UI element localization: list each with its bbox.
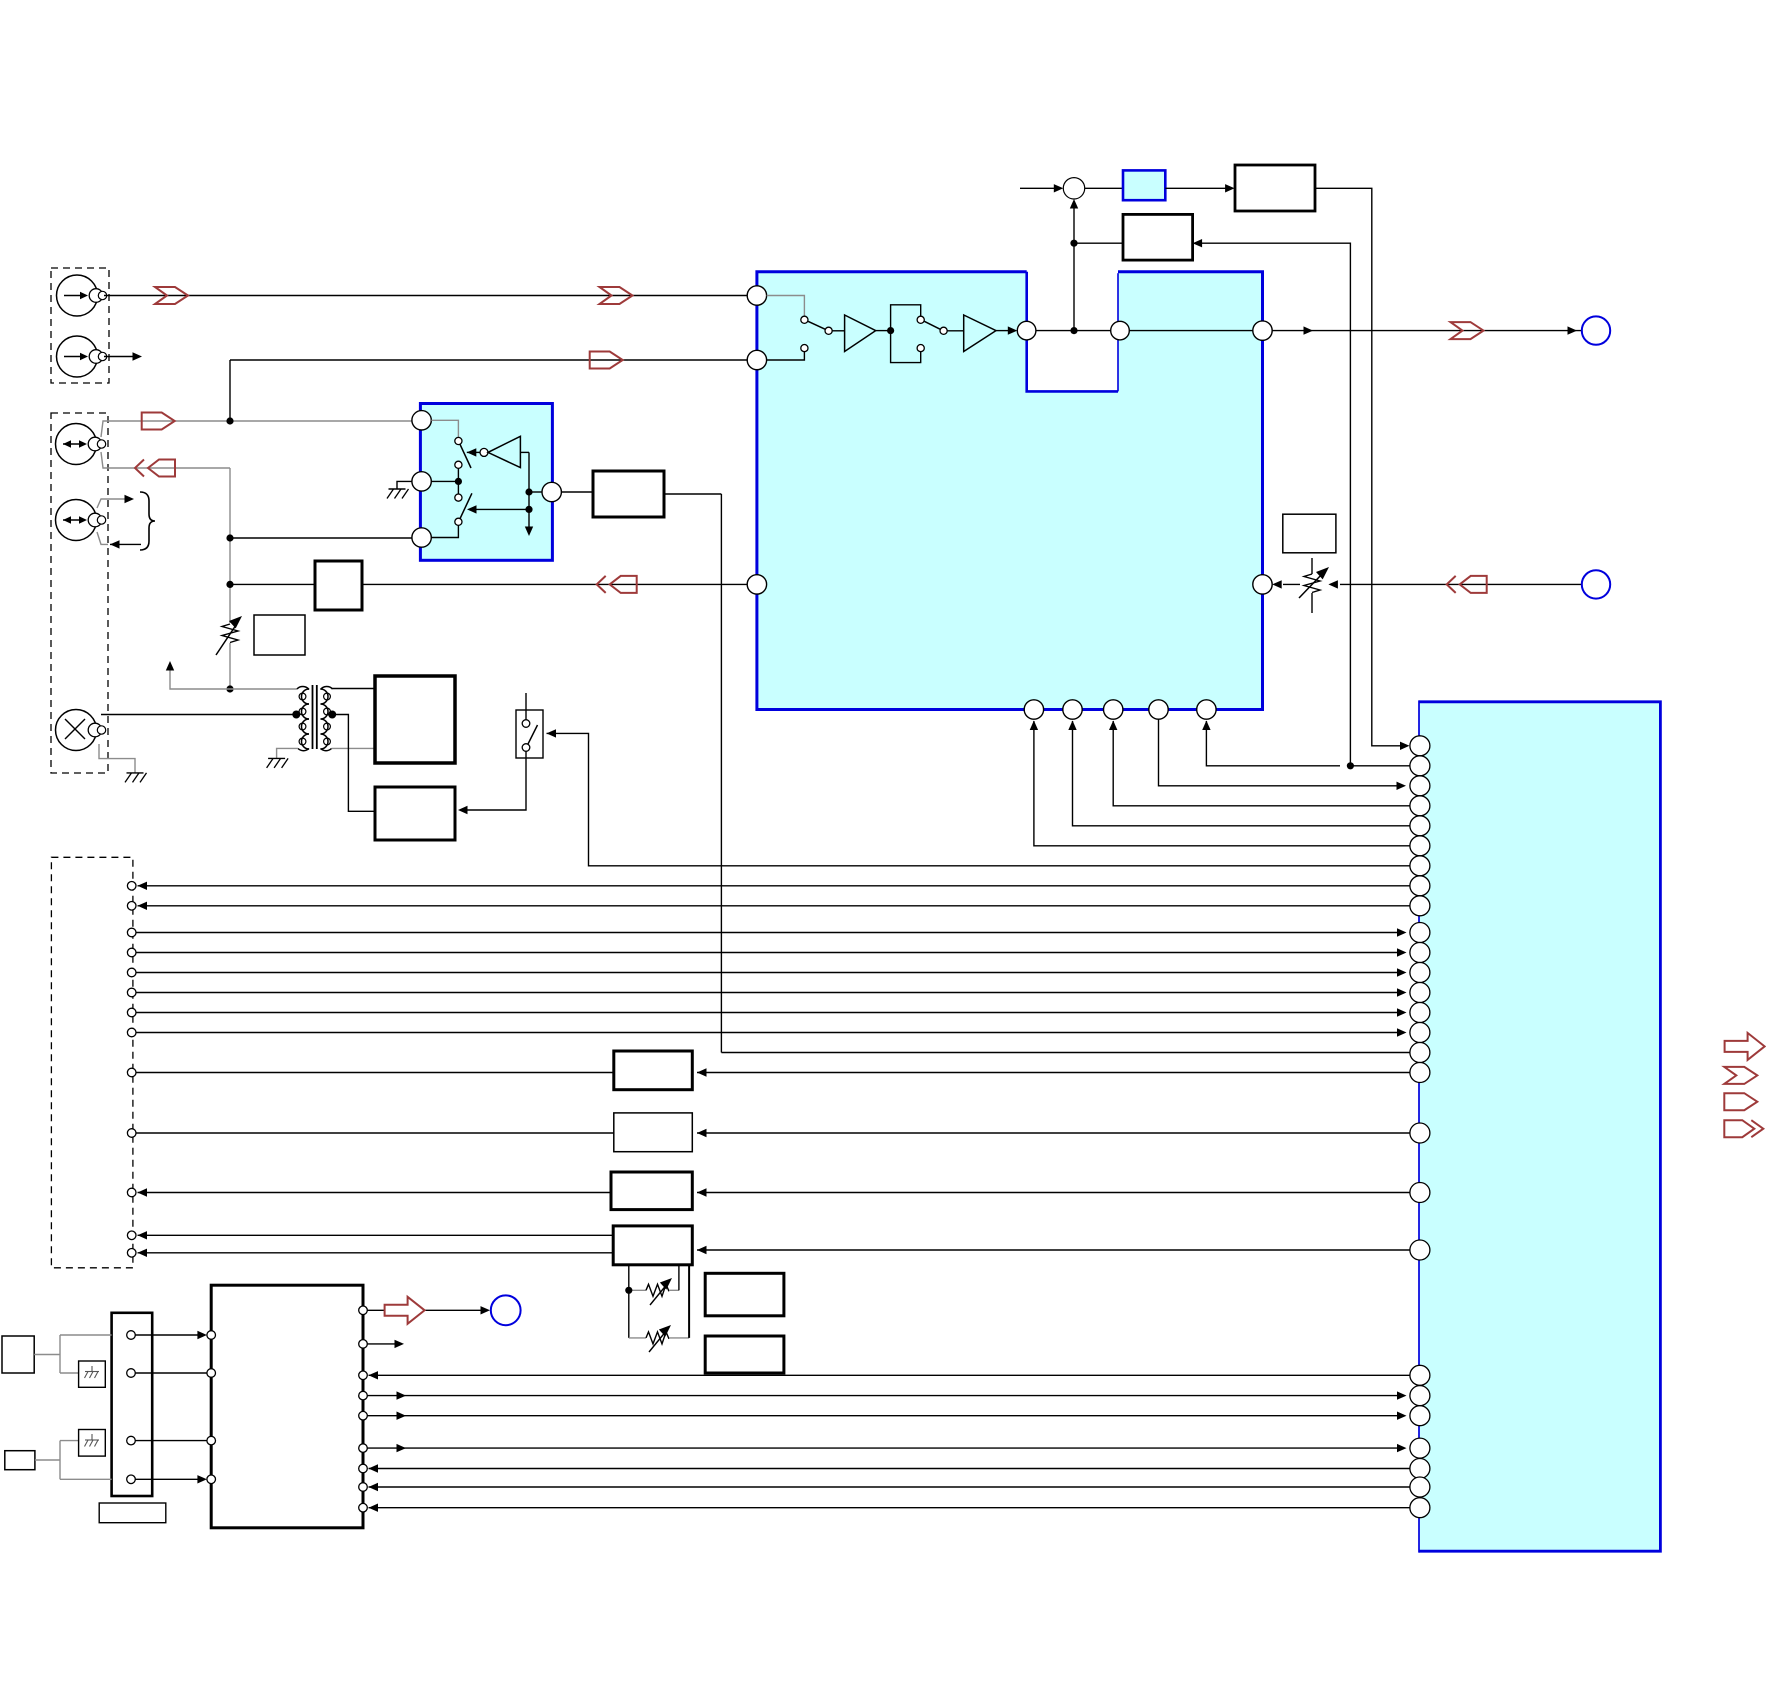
ground box 2 <box>79 1430 106 1457</box>
U2 pin 20 <box>1410 1240 1430 1260</box>
box E <box>705 1273 784 1316</box>
CN3 terminal 9 <box>127 1068 136 1077</box>
junction MAIN/feedback <box>1070 327 1077 334</box>
U2 pin 24 <box>1410 1438 1430 1458</box>
wire J3 bottom / vertical grey bus x=230 <box>101 452 230 689</box>
U2 pin 14 <box>1410 1003 1430 1023</box>
filter box FB1 (cyan) <box>1085 170 1166 200</box>
wire U3 to U2 pin23 (bus3) <box>367 1412 1406 1420</box>
wire SW1 to box L <box>458 751 526 814</box>
signal arrow (chevron) on LINE-OUT <box>1451 322 1484 339</box>
CN3 terminal 7 <box>127 1008 136 1017</box>
U1 switch S2 <box>917 316 947 352</box>
U3 right pin 4 <box>359 1391 368 1400</box>
U3 right pin 1 <box>359 1306 368 1315</box>
U1 buffer A1 <box>832 315 876 352</box>
box R2 (next to VR1) <box>254 615 305 655</box>
CN3 terminal 4 <box>127 948 136 957</box>
wire U3 to headphone node + red block arrow <box>367 1306 490 1314</box>
U1 wire A2 to notch node <box>996 326 1017 334</box>
U1 bottom pin 2 <box>1063 700 1082 719</box>
CN3 terminal 3 <box>127 928 136 937</box>
junction T1 primary tap <box>292 711 300 719</box>
U2 pin 17 <box>1410 1063 1430 1083</box>
U2 pin 15 <box>1410 1023 1430 1043</box>
U2 pin 11 <box>1410 943 1430 963</box>
signal arrow (pentagon) on REC-A <box>142 413 175 430</box>
connector group CN1 (dashed enclosure) <box>51 268 109 383</box>
CN3 terminal 1 <box>127 882 136 891</box>
U2 pin 5 <box>1410 816 1430 836</box>
wire T1 tap to box L <box>332 715 375 812</box>
IC SW-B (input selector, cyan) <box>420 404 552 561</box>
U2 pin 12 <box>1410 963 1430 983</box>
CN3 terminal 11 <box>127 1188 136 1197</box>
wire J5 to transformer primary tap <box>101 714 294 716</box>
wire box D to terminal 12 <box>138 1231 614 1239</box>
wire grey bus to transformer primary top <box>230 688 297 690</box>
wire box C to terminal 11 <box>138 1188 612 1196</box>
IC U2 (system control, cyan) <box>1419 700 1660 1552</box>
signal arrow (dbl-chevron left) on LINE-IN <box>1447 576 1487 593</box>
power block L <box>375 787 455 840</box>
wire U1 bot5 to U2 pin2 <box>1202 721 1410 766</box>
wire corner to U1 pin B (net REC-B) <box>230 360 747 421</box>
variable resistor VR4 under box D <box>629 1265 689 1352</box>
U1 internal wire pinB to switch S1 <box>767 352 805 360</box>
CN3 terminal 10 <box>127 1129 136 1138</box>
summing node S <box>1063 178 1084 199</box>
U1 pin C (left, MON) <box>747 575 766 594</box>
connector J5 (power) <box>56 710 106 751</box>
U2 pin 3 <box>1410 776 1430 796</box>
junction x230/y689 <box>226 685 233 692</box>
wire U2 pin8 to terminal 1 <box>138 882 1410 890</box>
wire U3 to U2 pin24 (bus4) <box>367 1444 1406 1452</box>
branch with up arrow <box>166 661 230 689</box>
junction x230/y584 <box>226 581 233 588</box>
signal arrow (block) on phones line <box>385 1297 425 1324</box>
wire input jack to attenuator (net LINE-IN) <box>1328 580 1581 588</box>
U3 right pin 7 <box>359 1464 368 1473</box>
input node (blue) <box>1582 570 1610 598</box>
U1 notch node right <box>1111 321 1130 340</box>
wire T1 primary bottom to chassis ground <box>277 748 298 758</box>
U1 bottom pin 4 <box>1149 700 1168 719</box>
stub arrow from J2 <box>104 352 142 360</box>
wire CN4-1 to U3 <box>135 1331 207 1339</box>
variable resistor VR1 on grey bus <box>216 612 245 655</box>
transformer T1 primary winding <box>297 687 309 751</box>
wire tap to box FB3 <box>1074 242 1123 244</box>
U2 pin 1 <box>1410 736 1430 756</box>
U2 pin 23 <box>1410 1406 1430 1426</box>
wire J1 to U1 pin A (net PB-L) <box>104 295 747 297</box>
connector J4 (bidirectional) <box>56 500 106 541</box>
CN3 terminal 6 <box>127 988 136 997</box>
wire terminal 7 to U2 pin 14 <box>136 1008 1407 1016</box>
SW-B switch S4 <box>455 493 472 525</box>
wire summing node to MAIN junction <box>1070 199 1078 331</box>
signal arrow (chevron) on PB-L near J1 <box>155 287 188 304</box>
output node (blue) <box>1582 316 1610 344</box>
SW-B junction to C4 <box>525 488 542 495</box>
U1 internal wire pinA to switch S1 <box>767 296 805 317</box>
SW-B switch S3 <box>455 437 471 468</box>
wire junction to SW-block pin C3 <box>230 537 412 539</box>
SW-B wire A3 to output <box>520 452 533 536</box>
U1 bottom pin 5 <box>1197 700 1216 719</box>
resistor box R1 <box>315 561 362 610</box>
box FB3 <box>1123 214 1193 260</box>
switch SW1 (power) <box>516 693 543 758</box>
signal arrow (dbl-chevron left) on MON <box>597 576 637 593</box>
SW-B pin C1 <box>412 411 431 430</box>
wire U3 to U2 pin22 (bus2) <box>367 1391 1406 1399</box>
U3 right pin 3 <box>359 1371 368 1380</box>
chassis ground (below J5) <box>125 773 147 783</box>
wire junction through R-box to U1 pin C (net MON) <box>230 583 747 585</box>
connector J2 <box>57 336 107 377</box>
U1 pin E (right, IN) <box>1253 575 1272 594</box>
attenuator VR2 <box>1299 558 1332 613</box>
chassis ground (T1) <box>267 758 289 768</box>
signal arrow (chevron) on PB-L mid <box>600 287 633 304</box>
wire U2 pin18 to box B <box>697 1129 1410 1137</box>
wire SW1 control from U2 pin7 <box>547 729 1410 866</box>
wire SW-B C4 to output box <box>561 491 593 493</box>
U1 buffer A2 <box>947 315 996 352</box>
U3 left pin 2 <box>207 1369 216 1378</box>
variable resistor VR3 under box D <box>629 1265 679 1305</box>
CN4 contact 2 <box>127 1369 136 1378</box>
U1 switch S1 <box>801 316 832 352</box>
U2 pin 27 <box>1410 1498 1430 1518</box>
U3 left pin 3 <box>207 1436 216 1445</box>
wire U1 bot4 to U2 pin3 <box>1159 719 1407 790</box>
U2 pin 8 <box>1410 876 1430 896</box>
wire box G to CN4/groundbox1 <box>34 1335 111 1373</box>
SW-B pin C2 <box>412 472 431 491</box>
wire CN4-3 to U3 <box>135 1440 207 1442</box>
wire terminal 6 to U2 pin 13 <box>136 988 1407 996</box>
wire FB1 to box FB2 <box>1165 184 1234 192</box>
U3 right pin 8 <box>359 1483 368 1492</box>
U2 pin 26 <box>1410 1477 1430 1497</box>
CN3 terminal 5 <box>127 968 136 977</box>
output box of SW-B <box>593 471 664 517</box>
SW-B wire C2 junction <box>431 468 462 494</box>
IC U3 (bottom-left block) <box>211 1285 363 1528</box>
U3 left pin 4 <box>207 1475 216 1484</box>
U1 splitter to switch S2 <box>891 305 921 363</box>
wire notch to U1 right pin <box>1129 330 1253 332</box>
brace note at J4 <box>97 492 155 550</box>
box B <box>614 1113 693 1152</box>
box I (under CN4) <box>99 1503 166 1523</box>
U2 pin 4 <box>1410 796 1430 816</box>
sensor box G <box>2 1336 34 1373</box>
SW-B pin C4 (output) <box>542 482 561 501</box>
U1 pin A (left, PB) <box>747 286 766 305</box>
wire terminal 10 to box B <box>136 1132 614 1134</box>
IC U1 (record/playback selector, cyan) <box>757 272 1263 710</box>
terminal strip CN3 (dashed enclosure) <box>51 857 132 1268</box>
connector J3 (bidirectional) <box>56 424 106 465</box>
wire U2 pin9 to terminal 2 <box>138 902 1410 910</box>
junction T1 secondary tap <box>328 711 336 719</box>
wire attenuator to U1 IN <box>1272 580 1300 588</box>
U2 pin 7 <box>1410 856 1430 876</box>
U2 pin 9 <box>1410 896 1430 916</box>
CN3 terminal 13 <box>127 1249 136 1258</box>
U3 right pin 9 <box>359 1503 368 1512</box>
ground box 1 <box>79 1361 106 1387</box>
signal arrow (dbl-chevron left) near J3 <box>135 460 175 477</box>
U3 stub output arrow <box>367 1340 404 1348</box>
U3 right pin 5 <box>359 1411 368 1420</box>
legend arrow (block) <box>1725 1033 1765 1060</box>
U2 pin 10 <box>1410 923 1430 943</box>
wire box D to terminal 13 <box>138 1249 614 1257</box>
U3 left pin 1 <box>207 1331 216 1340</box>
U1 pin D (right, OUT) <box>1253 321 1272 340</box>
U2 pin 22 <box>1410 1386 1430 1406</box>
wire terminal 4 to U2 pin 11 <box>136 948 1407 956</box>
wire U2 pin26 to U3 (bus6) <box>369 1483 1410 1491</box>
SW-B pin C3 <box>412 528 431 547</box>
phones node (blue) <box>491 1295 521 1325</box>
U2 pin 21 <box>1410 1365 1430 1385</box>
power block K <box>375 676 455 763</box>
wire box H to groundbox2/CN4 <box>35 1441 112 1480</box>
U1 pin B (left, REC) <box>747 350 766 369</box>
wire U2 pin20 to box D <box>697 1246 1410 1254</box>
connector J1 <box>57 275 107 316</box>
wire U2 pin17 to box A <box>697 1068 1410 1076</box>
U2 pin 6 <box>1410 836 1430 856</box>
U1 notch node left <box>1017 321 1036 340</box>
wire J3 top to SW-block input (net REC-A) <box>101 421 412 437</box>
wire J5 to chassis ground <box>99 744 135 773</box>
connector group CN2 (dashed enclosure) <box>51 413 108 773</box>
box N (by attenuator) <box>1283 514 1336 553</box>
SW-B inverter A3 <box>467 436 521 467</box>
wire U1 bot1 to U2 pin6 <box>1030 721 1410 846</box>
connector strip CN4 <box>112 1313 153 1496</box>
sensor box H <box>5 1451 35 1470</box>
U2 pin 2 <box>1410 756 1430 776</box>
CN3 terminal 8 <box>127 1028 136 1037</box>
U2 pin 25 <box>1410 1459 1430 1479</box>
CN4 contact 4 <box>127 1475 136 1484</box>
CN4 contact 3 <box>127 1436 136 1445</box>
transformer T1 core <box>313 685 317 749</box>
wire CN4-2 to U3 <box>135 1372 207 1374</box>
signal arrow (pentagon) on REC-B mid <box>590 352 623 369</box>
transformer T1 secondary winding <box>321 687 333 751</box>
U2 pin 13 <box>1410 983 1430 1003</box>
wire terminal 9 to box A <box>136 1072 614 1074</box>
U1 junction after A1 <box>876 327 895 334</box>
SW-B wire C3 to S4 <box>431 525 458 537</box>
wire FB3 input from right bus (down to U2 pin2) <box>1193 239 1351 766</box>
legend arrow (chevron) <box>1724 1067 1757 1084</box>
wire U2 pin19 to box C <box>697 1188 1410 1196</box>
wire U2 pin25 to U3 (bus5) <box>369 1464 1410 1472</box>
CN3 terminal 12 <box>127 1231 136 1240</box>
wire U1 bot2 to U2 pin5 <box>1068 721 1410 826</box>
wire U1 OUT to output jack (net LINE-OUT) <box>1272 326 1581 334</box>
CN4 contact 1 <box>127 1331 136 1340</box>
junction VR3/VR4 <box>625 1287 632 1294</box>
U3 right pin 6 <box>359 1444 368 1453</box>
SW-B internal wire C1 to S3 <box>431 420 458 437</box>
wire U2 pin27 to U3 (bus7) <box>369 1504 1410 1512</box>
wire T1 secondary top to box K <box>332 688 376 690</box>
junction feedback tap <box>1070 240 1077 247</box>
box D <box>613 1226 692 1265</box>
U2 pin 16 <box>1410 1043 1430 1063</box>
wire U1 bot3 to U2 pin4 <box>1109 721 1410 806</box>
legend arrow (pentagon+chevron) <box>1724 1120 1763 1137</box>
SW-B ground at C2 <box>387 481 412 498</box>
junction x230/y538 <box>226 534 233 541</box>
wire CN4-4 to U3 <box>135 1475 207 1483</box>
wire U2 pin21 to U3 (bus1) <box>369 1371 1410 1379</box>
junction x230/y421 <box>226 417 233 424</box>
U3 right pin 2 <box>359 1340 368 1349</box>
box F <box>705 1336 784 1373</box>
U2 pin 19 <box>1410 1183 1430 1203</box>
U1 bottom pin 1 <box>1024 700 1043 719</box>
wire terminal 3 to U2 pin 10 <box>136 928 1407 936</box>
box A <box>614 1051 693 1090</box>
U2 pin 18 <box>1410 1123 1430 1143</box>
legend arrow (pentagon) <box>1724 1093 1757 1110</box>
wire SW-B output box to U2 pin16 <box>664 494 1410 1053</box>
wire across notch (net MAIN) <box>1036 330 1111 332</box>
CN3 terminal 2 <box>127 902 136 911</box>
SW-B junction to S4 arrow <box>467 505 533 513</box>
box FB2 <box>1235 165 1315 211</box>
box C <box>611 1172 692 1210</box>
U1 bottom pin 3 <box>1104 700 1123 719</box>
wire FB2 to right bus (down to U2 pin1) <box>1315 188 1410 750</box>
wire terminal 8 to U2 pin 15 <box>136 1028 1407 1036</box>
junction right bus / U2 pin2 <box>1347 762 1354 769</box>
stub into summing node <box>1020 184 1063 192</box>
wire terminal 5 to U2 pin 12 <box>136 968 1407 976</box>
wire T1 secondary bottom to box K <box>332 747 376 749</box>
